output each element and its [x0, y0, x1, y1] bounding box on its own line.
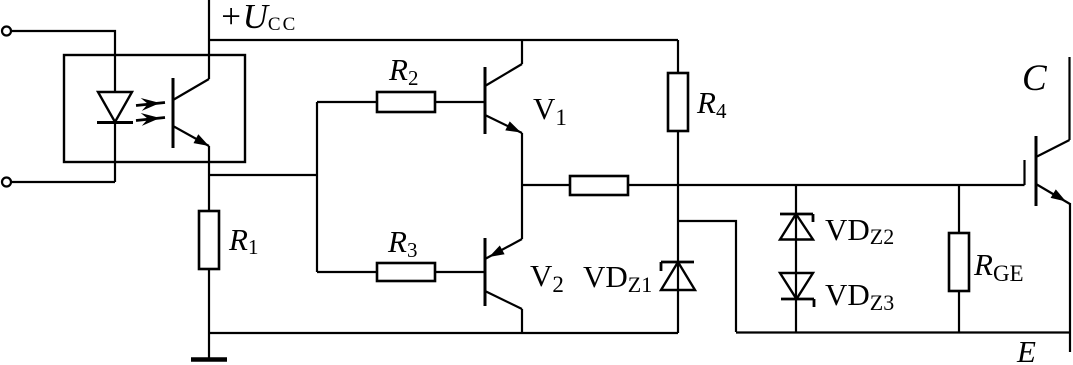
svg-text:E: E	[1016, 334, 1036, 365]
output wire push-pull to gate resistor	[522, 184, 570, 186]
+Ucc supply rail	[209, 39, 678, 41]
input terminal bottom	[2, 178, 11, 187]
gate wire	[628, 184, 1025, 186]
transistor V1	[485, 40, 522, 185]
light arrow 1	[136, 98, 165, 111]
transistor V2	[485, 185, 522, 333]
bottom right emitter rail	[736, 331, 1071, 333]
svg-text:R2: R2	[388, 52, 418, 90]
svg-text:R4: R4	[696, 85, 727, 123]
svg-text:+UCC: +UCC	[219, 0, 297, 36]
wire bottom input to LED cathode	[11, 181, 116, 183]
wire top input to LED	[11, 31, 116, 92]
bottom left ground rail	[209, 332, 678, 334]
wire to R2	[317, 101, 377, 103]
optocoupler box	[64, 55, 245, 162]
resistor R3	[377, 263, 435, 281]
svg-text:R3: R3	[387, 224, 417, 262]
wire R2 to V1 base	[435, 101, 485, 103]
resistor R2	[377, 92, 435, 112]
wire VDZ1 node to emitter rail	[678, 221, 736, 332]
LED diode in optocoupler	[97, 92, 133, 182]
resistor RGE	[949, 185, 969, 332]
input terminal top	[2, 27, 11, 36]
svg-text:VDZ2: VDZ2	[825, 212, 894, 249]
svg-text:R1: R1	[228, 222, 258, 259]
zener diode VDZ2	[780, 185, 813, 332]
IGBT V	[1025, 57, 1071, 352]
wire divider vertical	[316, 102, 318, 272]
svg-text:RGE: RGE	[973, 247, 1024, 286]
phototransistor of optocoupler	[173, 0, 209, 211]
ground	[191, 333, 227, 360]
resistor R1	[199, 211, 219, 269]
wire emitter node to divider	[209, 174, 317, 176]
wire to R3	[317, 271, 377, 273]
zener diode VDZ3	[780, 273, 814, 307]
wire R3 to V2 base	[435, 271, 485, 273]
resistor R4	[668, 40, 688, 185]
svg-text:VDZ3: VDZ3	[825, 277, 894, 315]
svg-text:V2: V2	[530, 258, 564, 297]
svg-text:C: C	[1022, 58, 1048, 99]
zener diode VDZ1	[661, 185, 695, 333]
svg-text:VDZ1: VDZ1	[583, 259, 652, 297]
gate series resistor	[570, 176, 628, 195]
svg-text:V1: V1	[533, 91, 567, 130]
light arrow 2	[136, 113, 165, 126]
wire R1 to ground rail	[208, 269, 210, 333]
